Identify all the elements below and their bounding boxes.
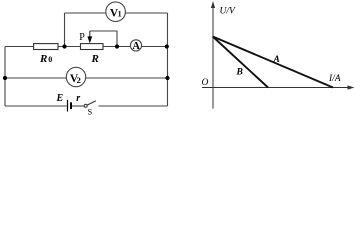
junction dot slider tap [115,44,119,48]
svg-text:R: R [39,53,47,65]
junction dot right of ammeter [165,44,169,48]
wire V1 branch vertical [64,13,66,47]
battery E short plate [70,102,72,109]
svg-text:r: r [76,93,80,104]
ammeter A [130,40,141,51]
svg-text:A: A [273,55,280,65]
svg-text:0: 0 [48,55,52,64]
svg-text:R: R [91,53,99,65]
wire V2 branch horizontal [5,77,168,79]
svg-text:U/V: U/V [220,7,237,17]
x axis [202,87,352,89]
graph line B [213,37,268,88]
svg-text:S: S [88,107,93,117]
svg-text:P: P [79,32,85,43]
wire left vertical [4,47,6,107]
wire battery to switch [71,105,84,107]
junction dot V2 right [165,76,169,80]
voltmeter V1 [106,2,126,22]
svg-text:A: A [132,41,140,52]
wire right vertical [167,13,169,106]
junction dot V2 left [3,76,7,80]
switch S lever [87,101,96,105]
rheostat R [81,44,104,50]
battery E long plate [67,100,69,112]
wire rheostat to right vertical [103,46,168,48]
y axis [212,3,214,109]
svg-text:O: O [202,78,209,88]
graph line A [213,37,333,88]
voltmeter V2 [66,67,85,86]
wire bottom left segment [5,105,67,107]
slider P arrow [89,31,91,38]
svg-text:E: E [56,93,64,104]
switch S pivot [84,104,87,107]
wire top horizontal [65,12,168,14]
svg-text:I/A: I/A [328,74,341,84]
junction dot left of V1 branch [62,44,66,48]
svg-text:1: 1 [118,10,122,19]
wire slider tap [90,31,117,47]
svg-text:2: 2 [77,75,81,85]
svg-text:B: B [236,68,243,78]
wire switch to right vertical [99,105,168,107]
wire middle horizontal main [5,46,81,48]
resistor R0 [34,44,58,50]
